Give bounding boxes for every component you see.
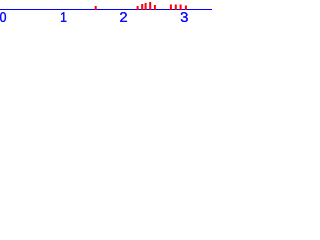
- label 0: [0, 12, 6, 22]
- label 2: [120, 12, 127, 22]
- tick 9 (red data mark): [180, 5, 182, 11]
- tick 4 (red data mark): [145, 3, 147, 10]
- tick 5 (red data mark): [149, 2, 151, 10]
- tick 7 (red data mark): [170, 5, 172, 11]
- label 1: [61, 12, 66, 22]
- tick 6 (red data mark): [154, 5, 156, 10]
- tick 1 (red data mark): [95, 6, 97, 10]
- tick 8 (red data mark): [175, 5, 177, 11]
- tick 3 (red data mark): [141, 4, 143, 10]
- tick 10 (red data mark): [185, 6, 187, 11]
- number line axis: [0, 9, 212, 10]
- tick 2 (red data mark): [137, 6, 139, 10]
- label 3: [181, 12, 188, 22]
- background: [0, 0, 212, 29]
